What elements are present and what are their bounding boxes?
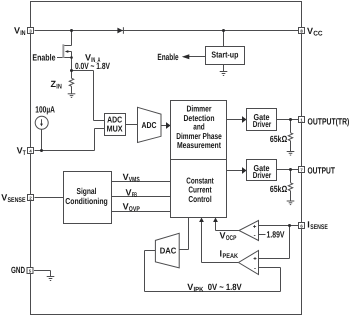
svg-text:Enable: Enable — [32, 52, 55, 62]
svg-text:VMS: VMS — [129, 177, 140, 184]
svg-text:V: V — [17, 145, 23, 155]
svg-text:IN: IN — [20, 30, 25, 37]
svg-text:0V ~ 1.8V: 0V ~ 1.8V — [208, 282, 242, 292]
svg-text:and: and — [193, 122, 205, 132]
svg-text:CC: CC — [313, 31, 322, 38]
svg-text:V: V — [220, 230, 226, 240]
svg-text:OUTPUT: OUTPUT — [308, 166, 336, 176]
svg-text:OCP: OCP — [226, 235, 237, 242]
svg-text:GND: GND — [11, 265, 25, 275]
svg-text:V: V — [123, 202, 129, 212]
svg-text:Conditioning: Conditioning — [65, 196, 108, 206]
svg-text:-: - — [254, 233, 256, 239]
svg-text:OUTPUT(TR): OUTPUT(TR) — [308, 116, 350, 126]
svg-text:0.0V ~ 1.8V: 0.0V ~ 1.8V — [75, 61, 110, 71]
svg-text:V: V — [123, 172, 129, 182]
svg-text:Driver: Driver — [253, 170, 272, 180]
svg-text:-: - — [254, 266, 256, 272]
svg-text:V: V — [1, 193, 7, 203]
svg-text:FB: FB — [132, 192, 137, 199]
svg-text:Signal: Signal — [77, 186, 97, 196]
svg-text:OVP: OVP — [129, 206, 140, 213]
svg-text:IPK: IPK — [194, 286, 204, 293]
svg-text:DAC: DAC — [160, 246, 177, 256]
svg-text:100µA: 100µA — [35, 104, 55, 114]
svg-text:V: V — [187, 282, 193, 292]
svg-text:Driver: Driver — [253, 119, 272, 129]
svg-text:+: + — [253, 225, 257, 231]
svg-text:SENSE: SENSE — [310, 224, 328, 231]
svg-text:65kΩ: 65kΩ — [270, 184, 287, 194]
svg-text:Dimmer: Dimmer — [187, 103, 213, 113]
svg-text:V: V — [307, 26, 313, 36]
svg-text:65kΩ: 65kΩ — [270, 134, 287, 144]
svg-text:Start-up: Start-up — [211, 50, 238, 60]
svg-text:PEAK: PEAK — [223, 253, 239, 260]
svg-text:1.89V: 1.89V — [267, 229, 285, 239]
svg-text:MUX: MUX — [107, 124, 123, 134]
svg-text:Control: Control — [188, 194, 211, 204]
svg-text:ADC: ADC — [142, 120, 157, 130]
svg-text:SENSE: SENSE — [8, 197, 26, 204]
svg-text:Enable: Enable — [157, 52, 178, 62]
svg-text:Measurement: Measurement — [177, 140, 221, 150]
svg-text:+: + — [253, 257, 257, 263]
svg-text:IN: IN — [56, 83, 62, 90]
svg-text:V: V — [14, 26, 20, 36]
svg-text:V: V — [126, 188, 132, 198]
